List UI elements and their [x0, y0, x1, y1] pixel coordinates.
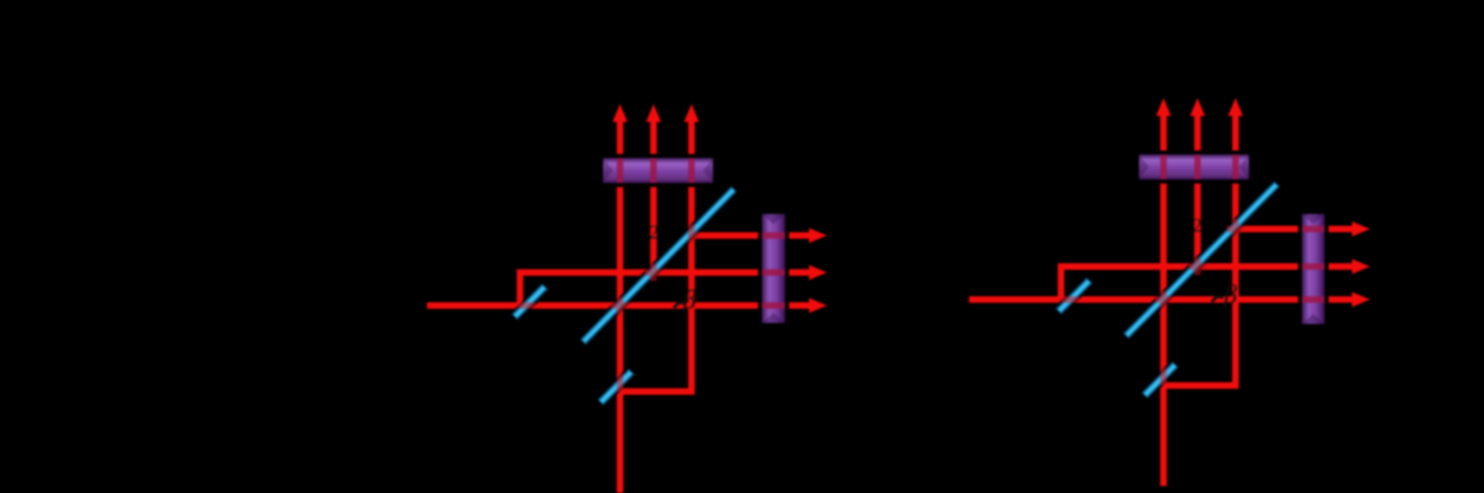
- wire: periscope step at x=520 up to middle row: [520, 273, 812, 309]
- wire: vertical beam x=691.5 up from bottom step: [620, 113, 692, 392]
- beam stripe through horizontal bar 1: [617, 158, 624, 183]
- input mirror 1 (small cyan): [513, 285, 547, 319]
- wire: top output row y=235.5 from splitter to screen: [688, 232, 812, 239]
- svg-text:2: 2: [649, 222, 659, 244]
- beam stripe through vertical bar 3: [762, 302, 785, 309]
- filter bar horizontal (purple, right): [1139, 155, 1249, 180]
- wire: top output row y=229 from splitter to screen: [1232, 226, 1355, 233]
- arrowhead right row 2 (right diagram): [1352, 259, 1370, 274]
- bevel left end of horizontal bar (right): [1139, 155, 1149, 180]
- wire: vertical beam x=653.5 up from splitter: [650, 113, 657, 276]
- wire: vertical beam x=1235.5 up from bottom step: [1164, 107, 1236, 386]
- arrowhead up beam 1 (right diagram): [1156, 98, 1171, 116]
- beam stripe through vertical bar 3 (right): [1302, 296, 1325, 303]
- beam stripe through horizontal bar 2: [650, 158, 657, 183]
- screen halo: vertical filter bar shadow: [758, 210, 789, 327]
- arrowhead right row 3 (right diagram): [1352, 292, 1370, 307]
- input mirror 2 (small cyan, bottom): [599, 370, 633, 404]
- bevel left end of horizontal bar: [603, 158, 613, 183]
- beam stripe through vertical bar 1: [762, 232, 785, 239]
- bevel top end of vertical bar (right): [1302, 214, 1325, 224]
- beam stripe through vertical bar 1 (right): [1302, 226, 1325, 233]
- arrowhead up beam 2 (right diagram): [1190, 98, 1205, 116]
- svg-text:β: β: [682, 285, 696, 314]
- input mirror 2 (small cyan, bottom, right): [1143, 363, 1177, 397]
- beam show-through at splitter crossings (right): [1062, 219, 1245, 385]
- arrowhead up beam 1: [613, 104, 628, 122]
- screen halo: vertical filter bar shadow (right): [1298, 210, 1329, 328]
- arrowhead up beam 2: [646, 104, 661, 122]
- arrowhead right row 1: [809, 228, 827, 243]
- wire: vertical beam x=620 (bottom input through splitter up): [617, 113, 624, 493]
- wire: periscope step at x=1061 up to middle row: [1061, 267, 1355, 303]
- beam splitter main diagonal (cyan): [581, 187, 736, 344]
- bevel right end of horizontal bar: [703, 158, 713, 183]
- beam splitter main diagonal (cyan, right): [1124, 182, 1279, 338]
- beam show-through at splitter crossings (left): [518, 225, 701, 392]
- beam stripe through horizontal bar 3: [688, 158, 695, 183]
- arrowhead right row 3: [809, 298, 827, 313]
- label beta swash (left): [674, 303, 685, 308]
- screen halo: horizontal filter bar shadow: [599, 154, 717, 187]
- bevel bottom end of vertical bar (right): [1302, 314, 1325, 324]
- wire: input beam horizontal y=299.5: [969, 296, 1355, 303]
- svg-text:2: 2: [1193, 216, 1203, 237]
- beam stripe through horizontal bar 2 (right): [1194, 155, 1201, 180]
- arrowhead right row 1 (right diagram): [1352, 222, 1370, 237]
- wire: input beam horizontal y=305.5: [427, 302, 812, 309]
- arrowhead up beam 3 (right diagram): [1228, 98, 1243, 116]
- filter bar vertical (purple): [762, 214, 785, 323]
- wire: vertical beam x=1197.5 up from splitter: [1194, 107, 1201, 270]
- svg-text:β: β: [1223, 280, 1237, 309]
- screen halo: horizontal filter bar shadow (right): [1135, 151, 1253, 184]
- beam stripe through vertical bar 2: [762, 269, 785, 276]
- filter bar vertical (purple, right): [1302, 214, 1325, 324]
- beam stripe through horizontal bar 1 (right): [1160, 155, 1167, 180]
- bevel bottom end of vertical bar: [762, 313, 785, 323]
- wire: vertical beam x=1163.5 (bottom input through splitter up): [1160, 107, 1167, 486]
- bevel top end of vertical bar: [762, 214, 785, 224]
- arrowhead up beam 3: [684, 104, 699, 122]
- input mirror 1 (small cyan, right): [1057, 279, 1091, 313]
- beam stripe through horizontal bar 3 (right): [1232, 155, 1239, 180]
- beam stripe through vertical bar 2 (right): [1302, 263, 1325, 270]
- arrowhead right row 2: [809, 265, 827, 280]
- label beta swash (right): [1212, 297, 1223, 302]
- filter bar horizontal (purple): [603, 158, 713, 183]
- bevel right end of horizontal bar (right): [1239, 155, 1249, 180]
